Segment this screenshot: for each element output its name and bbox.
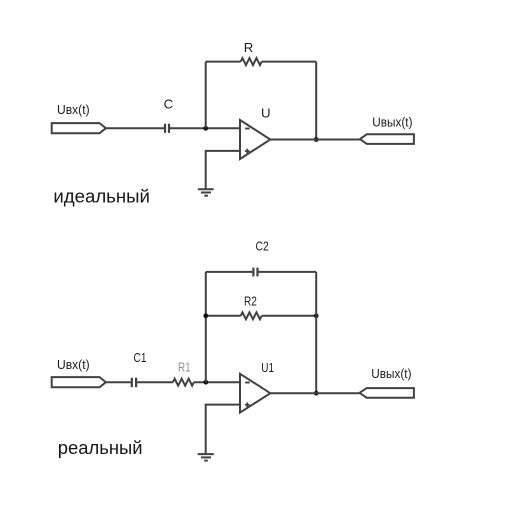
wire feedback right vertical bottom [315, 272, 317, 393]
resistor R1 [173, 379, 194, 386]
wire non-inverting input to ground [206, 151, 240, 189]
wire op-amp output bottom [270, 392, 359, 394]
svg-text:Uвых(t): Uвых(t) [372, 114, 412, 129]
output port Uвых(t) (top circuit) [360, 134, 414, 144]
wire capacitor to op-amp inverting input [170, 127, 240, 129]
wire feedback top right [262, 61, 317, 63]
wire C2 branch left [206, 271, 253, 273]
op-amp U [240, 120, 270, 159]
wire feedback top left [206, 61, 241, 63]
wire R2 branch right [262, 315, 317, 317]
svg-text:идеальный: идеальный [53, 186, 149, 206]
svg-text:U1: U1 [261, 360, 274, 375]
svg-text:C2: C2 [256, 238, 269, 253]
wire feedback left vertical [205, 62, 207, 129]
wire R2 branch left [206, 315, 241, 317]
ground (bottom circuit) [198, 454, 214, 461]
node junction R2 left [203, 313, 208, 318]
wire C1 to R1 [137, 381, 173, 383]
wire input to capacitor C [106, 127, 164, 129]
node junction feedback/output [314, 137, 319, 142]
capacitor C1 [132, 378, 136, 388]
svg-text:R2: R2 [244, 293, 257, 308]
svg-text:Uвых(t): Uвых(t) [371, 366, 411, 381]
node junction input/feedback bottom [203, 380, 208, 385]
output port Uвых(t) (bottom circuit) [360, 388, 414, 398]
svg-text:реальный: реальный [58, 438, 143, 458]
wire op-amp output [270, 139, 360, 141]
node junction R2 right [314, 313, 319, 318]
svg-text:R1: R1 [178, 360, 191, 375]
svg-text:Uвх(t): Uвх(t) [57, 357, 90, 372]
svg-text:C1: C1 [134, 350, 147, 365]
wire non-inverting input to ground bottom [206, 405, 240, 454]
capacitor C [165, 124, 169, 133]
wire C2 branch right [259, 271, 317, 273]
wire feedback left vertical bottom [205, 272, 207, 382]
svg-text:Uвх(t): Uвх(t) [57, 102, 90, 117]
svg-text:U: U [261, 106, 271, 121]
resistor R [241, 58, 262, 65]
op-amp U1 [240, 374, 270, 413]
wire feedback right vertical [315, 62, 317, 140]
svg-text:R: R [244, 40, 254, 55]
wire input to capacitor C1 [106, 381, 131, 383]
ground (top circuit) [198, 189, 214, 196]
node junction input/feedback [203, 126, 208, 131]
node junction feedback/output bottom [314, 391, 319, 396]
input port Uвх(t) (bottom circuit) [52, 377, 106, 387]
svg-text:C: C [164, 97, 174, 112]
resistor R2 [241, 312, 262, 319]
input port Uвх(t) (top circuit) [52, 123, 106, 133]
capacitor C2 [253, 268, 257, 277]
wire R1 to op-amp inverting input [194, 381, 240, 383]
